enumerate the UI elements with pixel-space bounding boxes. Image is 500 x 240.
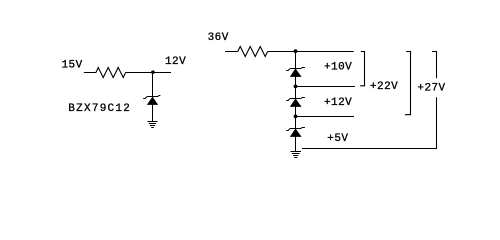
svg-text:15V: 15V [62, 59, 83, 71]
svg-text:36V: 36V [208, 32, 229, 44]
svg-text:12V: 12V [165, 56, 186, 68]
svg-text:+27V: +27V [417, 83, 445, 95]
svg-text:+5V: +5V [327, 133, 348, 145]
svg-text:+10V: +10V [324, 62, 352, 74]
svg-text:BZX79C12: BZX79C12 [68, 103, 131, 115]
svg-text:+12V: +12V [324, 97, 352, 109]
svg-text:+22V: +22V [370, 81, 398, 93]
